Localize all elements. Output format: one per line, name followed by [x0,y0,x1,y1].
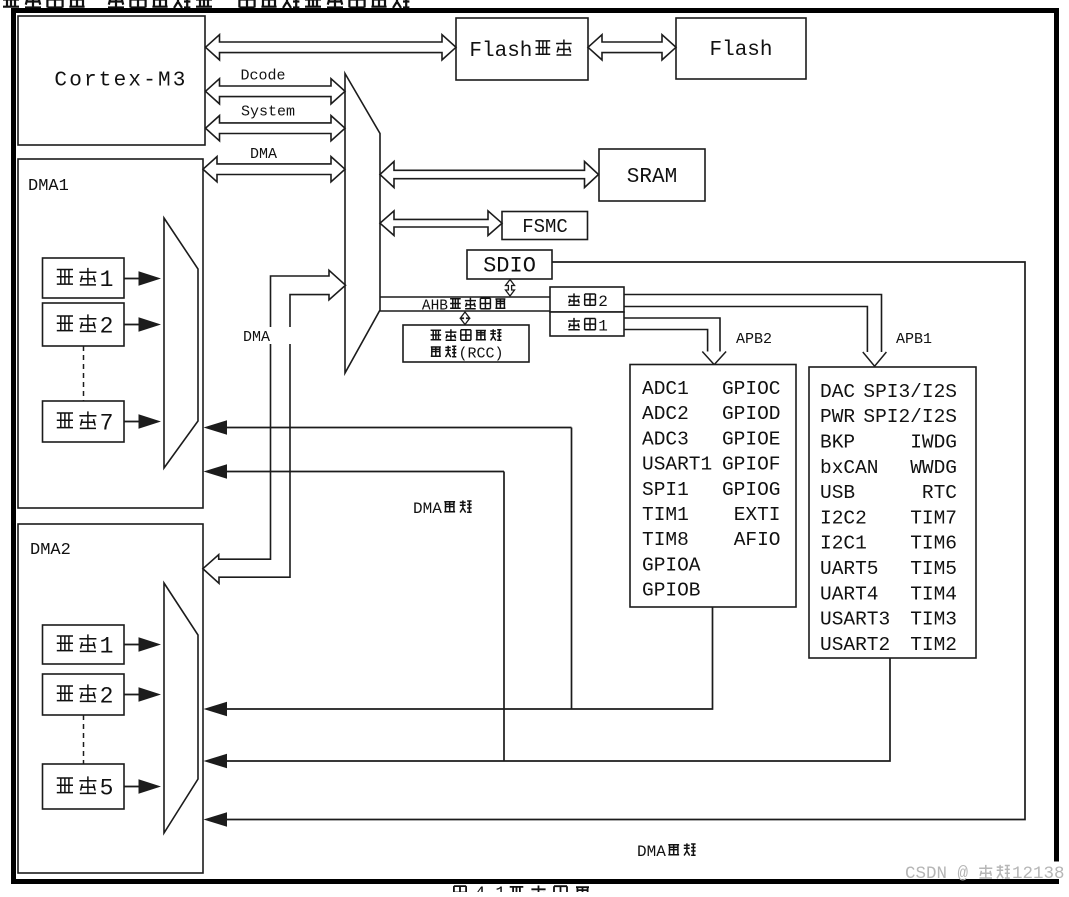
svg-text:DMA1: DMA1 [28,177,69,196]
svg-text:1: 1 [598,318,608,336]
svg-text:GPIOE: GPIOE [722,428,781,450]
svg-text:TIM5: TIM5 [910,558,957,580]
svg-text:bxCAN: bxCAN [820,457,879,479]
svg-text:Cortex-M3: Cortex-M3 [54,70,187,93]
svg-text:ADC2: ADC2 [642,403,689,425]
svg-text:CSDN @: CSDN @ [905,864,969,884]
svg-text:DMA2: DMA2 [30,541,71,560]
svg-text:DMA: DMA [413,500,442,518]
svg-text:FSMC: FSMC [522,216,568,238]
svg-text:GPIOB: GPIOB [642,580,701,602]
svg-text:AHB: AHB [422,299,448,315]
svg-text:Flash: Flash [469,40,532,63]
svg-text:GPIOG: GPIOG [722,479,781,501]
svg-text:TIM6: TIM6 [910,533,957,555]
svg-text:USART2: USART2 [820,634,890,656]
svg-text:7: 7 [100,411,114,437]
svg-text:GPIOC: GPIOC [722,378,781,400]
svg-text:2: 2 [100,684,114,710]
svg-text:IWDG: IWDG [910,432,957,454]
svg-text:SRAM: SRAM [627,166,677,189]
svg-text:SPI3/I2S: SPI3/I2S [863,381,957,403]
svg-text:UART4: UART4 [820,583,879,605]
svg-text:USART1: USART1 [642,454,712,476]
svg-text:EXTI: EXTI [734,504,781,526]
svg-text:TIM1: TIM1 [642,504,689,526]
svg-text:DMA: DMA [637,843,666,861]
svg-text:USART3: USART3 [820,609,890,631]
svg-text:RTC: RTC [922,482,957,504]
svg-text:DAC: DAC [820,381,855,403]
svg-text:APB1: APB1 [896,331,932,348]
svg-text:USB: USB [820,482,855,504]
svg-text:(RCC): (RCC) [459,346,504,363]
svg-text:TIM3: TIM3 [910,609,957,631]
svg-text:ADC3: ADC3 [642,428,689,450]
svg-text:BKP: BKP [820,432,855,454]
svg-text:System: System [241,104,295,121]
svg-text:I2C2: I2C2 [820,507,867,529]
svg-text:GPIOF: GPIOF [722,454,781,476]
svg-text:1: 1 [100,267,114,293]
svg-text:AFIO: AFIO [734,529,781,551]
svg-text:ADC1: ADC1 [642,378,689,400]
svg-text:GPIOD: GPIOD [722,403,781,425]
svg-text:SPI2/I2S: SPI2/I2S [863,406,957,428]
svg-text:TIM8: TIM8 [642,529,689,551]
svg-text:SDIO: SDIO [483,254,536,279]
svg-text:TIM7: TIM7 [910,507,957,529]
svg-text:4.1: 4.1 [475,885,506,893]
svg-text:SPI1: SPI1 [642,479,689,501]
svg-text:1: 1 [100,634,114,660]
svg-text:Flash: Flash [709,39,772,62]
svg-text:2: 2 [100,314,114,340]
svg-text:5: 5 [100,776,114,802]
svg-text:TIM4: TIM4 [910,583,957,605]
svg-text:TIM2: TIM2 [910,634,957,656]
svg-text:Dcode: Dcode [240,68,285,85]
svg-text:12138: 12138 [1012,864,1065,884]
svg-text:APB2: APB2 [736,331,772,348]
svg-text:I2C1: I2C1 [820,533,867,555]
svg-text:WWDG: WWDG [910,457,957,479]
svg-text:PWR: PWR [820,406,855,428]
svg-text:GPIOA: GPIOA [642,554,701,576]
svg-text:DMA: DMA [250,146,277,163]
svg-text:DMA: DMA [243,329,270,346]
svg-text:2: 2 [598,293,608,311]
svg-text:UART5: UART5 [820,558,879,580]
